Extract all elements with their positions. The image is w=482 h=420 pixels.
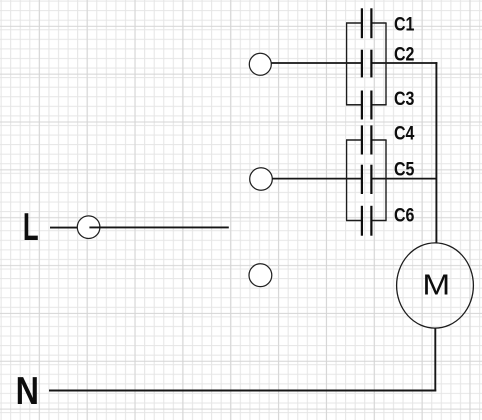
- svg-text:L: L: [23, 206, 39, 250]
- svg-text:C5: C5: [394, 158, 415, 180]
- wire bank 2 left bus: [346, 140, 348, 221]
- wire motor to N rail: [434, 329, 436, 392]
- svg-text:C6: C6: [394, 204, 415, 226]
- switch pole circle SW: [77, 216, 100, 239]
- wire bank 1 left bus: [346, 23, 348, 105]
- wire C4 left lead: [346, 139, 361, 141]
- capacitor C3: [362, 91, 372, 120]
- wire bank 2 right bus: [385, 140, 387, 221]
- label C1: [394, 13, 415, 35]
- label C2: [394, 43, 415, 65]
- wire C6 left lead: [346, 220, 361, 222]
- wire C4 right lead: [372, 139, 386, 141]
- label C6: [394, 204, 415, 226]
- capacitor C2: [362, 50, 372, 78]
- capacitor C1: [362, 8, 372, 38]
- capacitor C4: [362, 125, 372, 154]
- label N: [16, 369, 39, 413]
- terminal T1: [249, 53, 271, 75]
- wire capacitor bank 1 to right rail: [373, 62, 438, 64]
- svg-text:C2: C2: [394, 43, 415, 65]
- svg-text:C3: C3: [394, 88, 415, 110]
- wire C3 right lead: [372, 104, 386, 106]
- label C4: [394, 122, 415, 144]
- wire N horizontal: [49, 390, 436, 392]
- wire C3 left lead: [346, 104, 361, 106]
- wire C1 right lead: [372, 22, 386, 24]
- terminal T3: [249, 264, 272, 287]
- wire switch to open contact: [89, 226, 228, 228]
- wire T1 to capacitor bank 1: [271, 62, 361, 64]
- label L: [23, 206, 39, 250]
- motor M: [397, 243, 474, 328]
- wire capacitor bank 2 to right rail: [373, 178, 437, 180]
- wire L to switch: [50, 227, 78, 229]
- svg-text:C1: C1: [394, 13, 415, 35]
- capacitor C6: [362, 206, 372, 236]
- wire T2 to capacitor bank 2: [272, 178, 361, 180]
- svg-text:M: M: [422, 268, 450, 300]
- svg-text:N: N: [16, 369, 39, 413]
- label C5: [394, 158, 415, 180]
- label C3: [394, 88, 415, 110]
- wire C1 left lead: [346, 22, 361, 24]
- wire bank 1 right bus: [385, 23, 387, 105]
- svg-text:C4: C4: [394, 122, 415, 144]
- wire C6 right lead: [372, 220, 386, 222]
- capacitor C5: [362, 165, 372, 194]
- terminal T2: [250, 168, 273, 191]
- wire right rail vertical: [435, 62, 437, 243]
